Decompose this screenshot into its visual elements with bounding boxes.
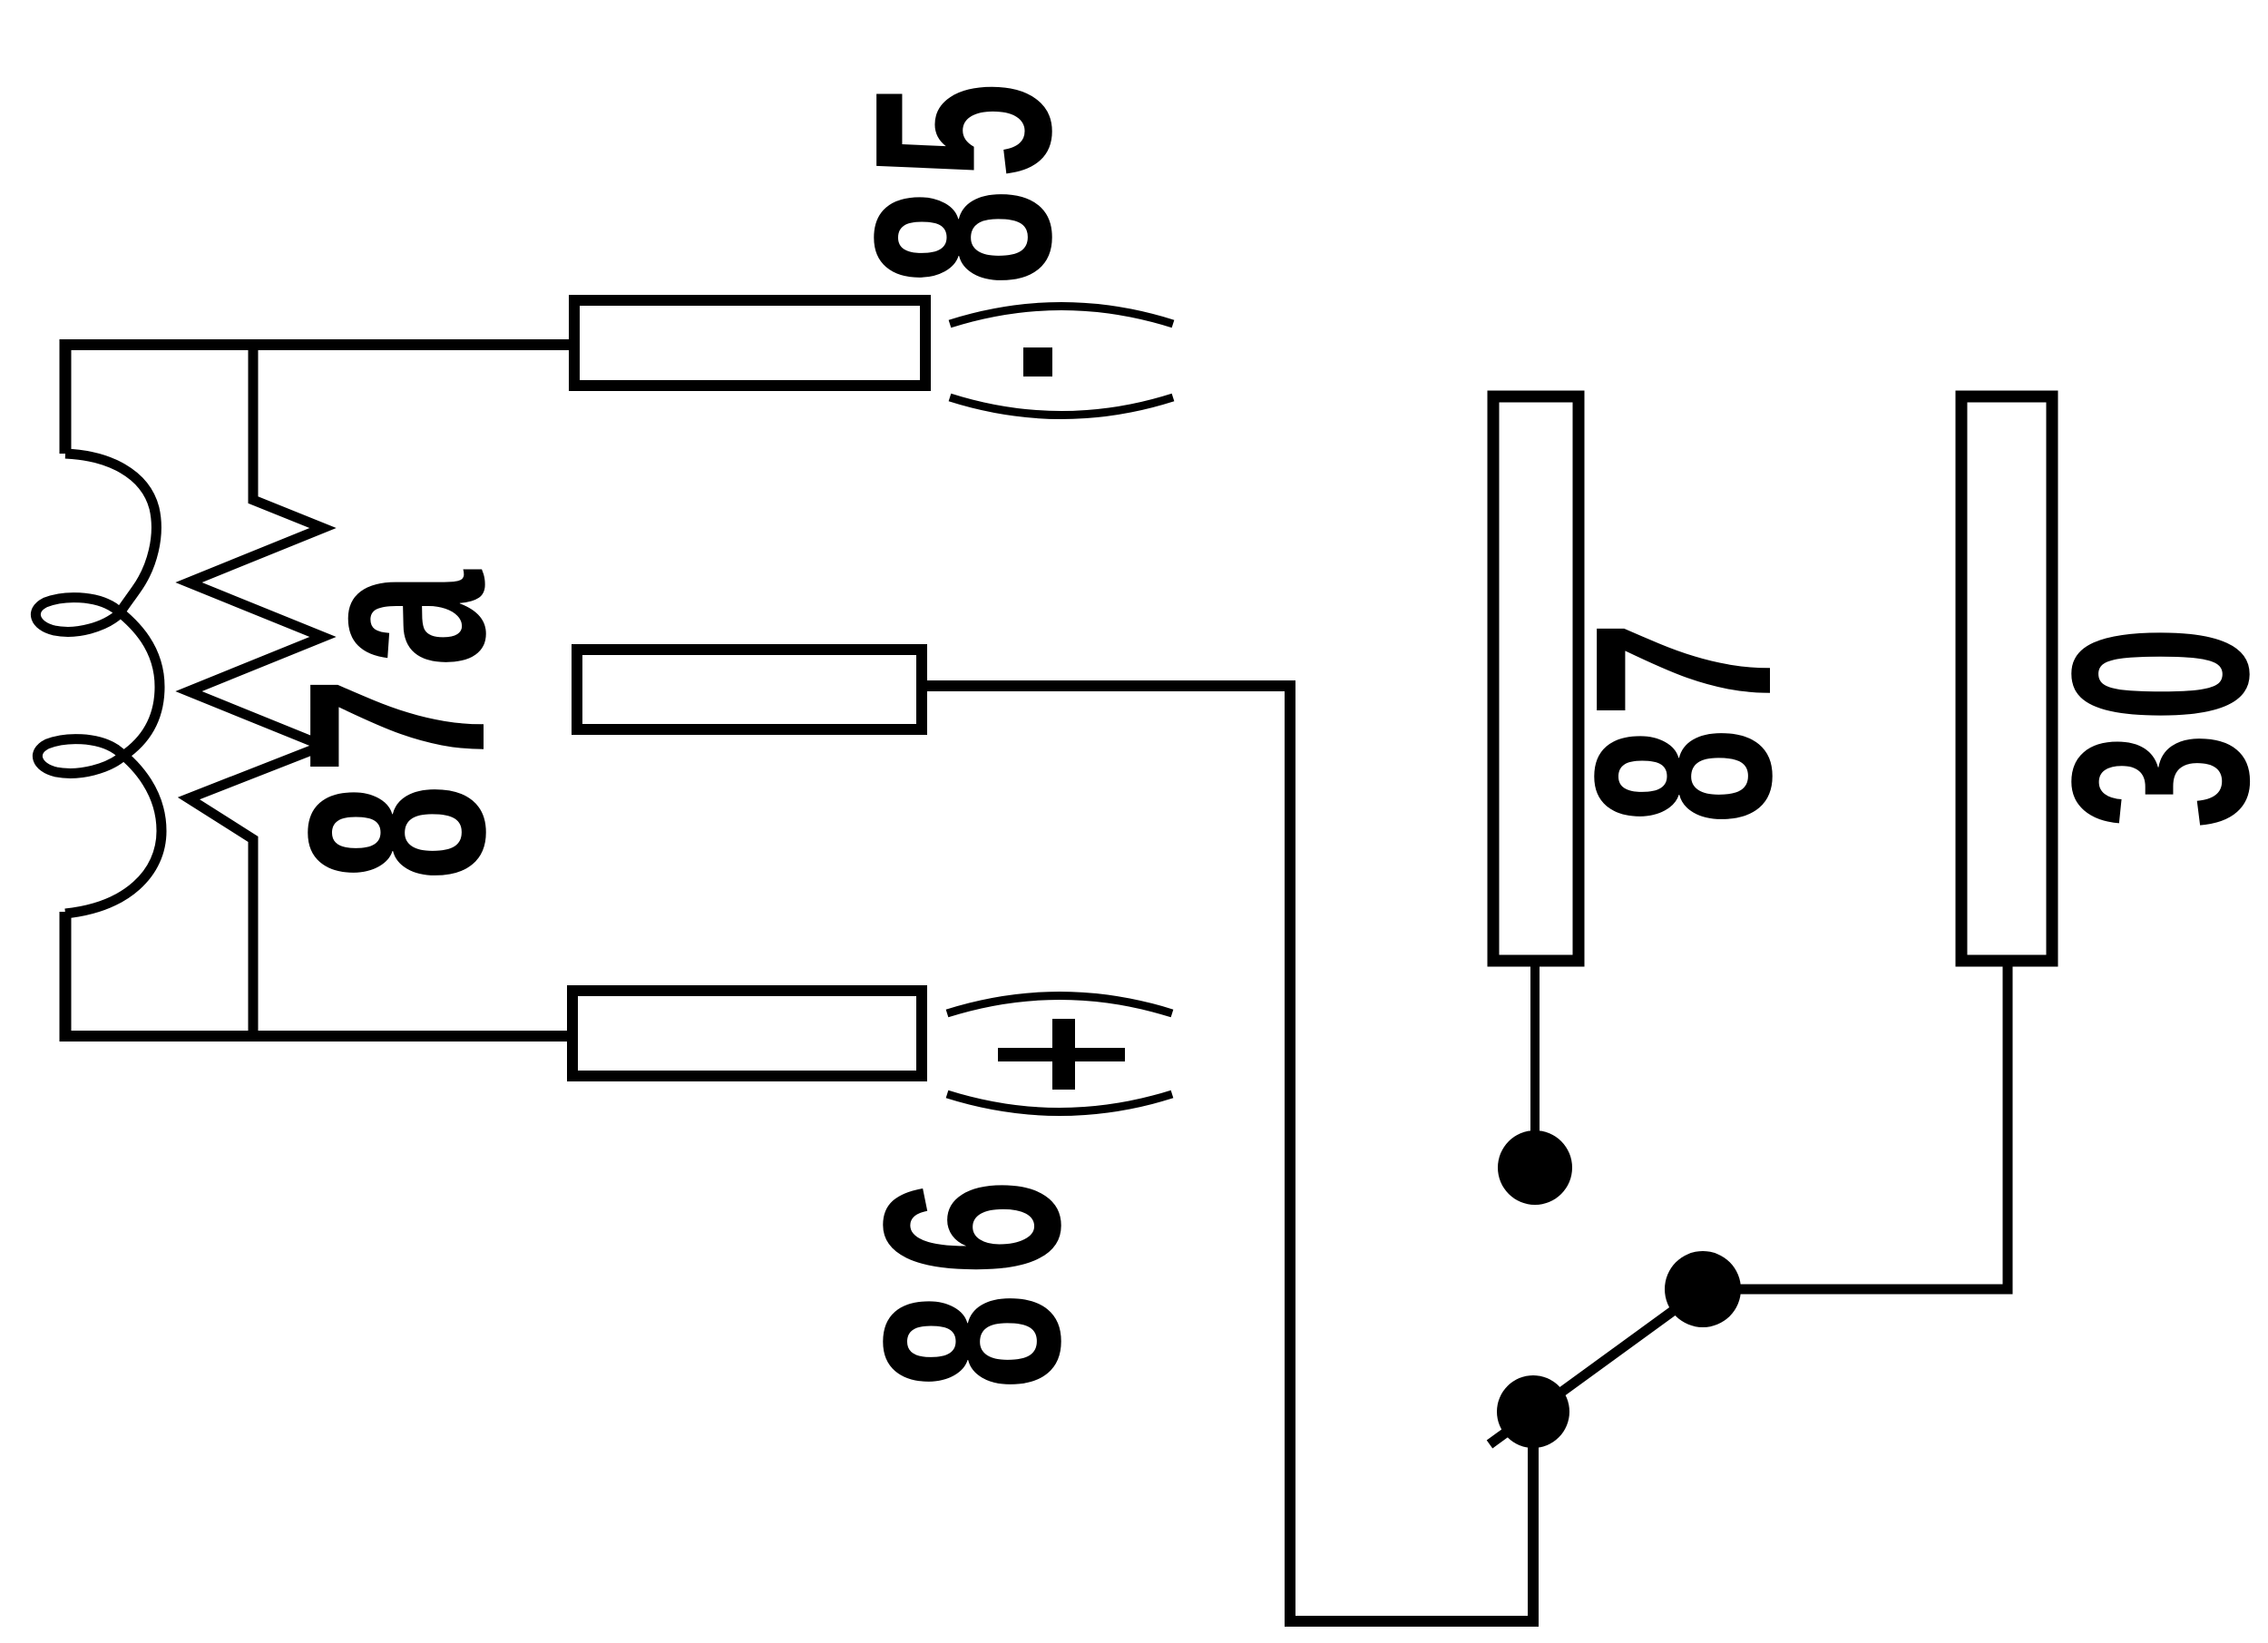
svg-text:85: 85 bbox=[822, 72, 1103, 286]
wire: left vertical lead into coil top bbox=[60, 339, 72, 454]
polarity (+) ellipse top arc bbox=[947, 996, 1172, 1014]
polarity (+) plus vertical bar bbox=[1052, 1019, 1075, 1090]
contact 87 bar rectangle bbox=[1493, 396, 1579, 961]
polarity (-) ellipse top arc bbox=[950, 307, 1173, 325]
wire: terminal 87a to switch pivot (L-path) bbox=[922, 686, 1533, 1621]
wire: left vertical lead from coil bottom bbox=[60, 912, 72, 1042]
terminal 85 blade rectangle bbox=[574, 300, 925, 386]
wire: bottom rail from coil to terminal 86 bbox=[60, 1031, 570, 1042]
fixed contact dot (87 side) bbox=[1498, 1130, 1572, 1205]
switch lever (movable contact arm) bbox=[1490, 1289, 1703, 1444]
svg-text:30: 30 bbox=[2019, 615, 2268, 829]
polarity (-) minus dash bbox=[1023, 347, 1052, 377]
wire: movable contact to terminal 30 bbox=[1703, 961, 2008, 1289]
contact 30 bar rectangle bbox=[1961, 396, 2052, 961]
polarity (+) ellipse bottom arc bbox=[947, 1094, 1172, 1112]
movable contact end dot bbox=[1665, 1251, 1741, 1327]
wire: contact 87 to fixed contact dot bbox=[1530, 961, 1540, 1134]
svg-text:87a: 87a bbox=[256, 561, 537, 881]
polarity (-) ellipse bottom arc bbox=[950, 397, 1173, 416]
wire: top rail from coil to terminal 85 bbox=[60, 339, 572, 350]
svg-text:86: 86 bbox=[831, 1161, 1112, 1390]
terminal 86 blade rectangle bbox=[572, 991, 922, 1076]
pivot contact dot (common) bbox=[1497, 1375, 1569, 1448]
relay coil K1 (three arcs with two cursive loops) bbox=[35, 454, 161, 914]
polarity (+) plus horizontal bar bbox=[998, 1048, 1125, 1061]
terminal 87a blade rectangle (middle) bbox=[577, 650, 922, 729]
svg-text:87: 87 bbox=[1542, 611, 1823, 825]
resistor R (zigzag) in parallel with coil bbox=[189, 347, 323, 1040]
